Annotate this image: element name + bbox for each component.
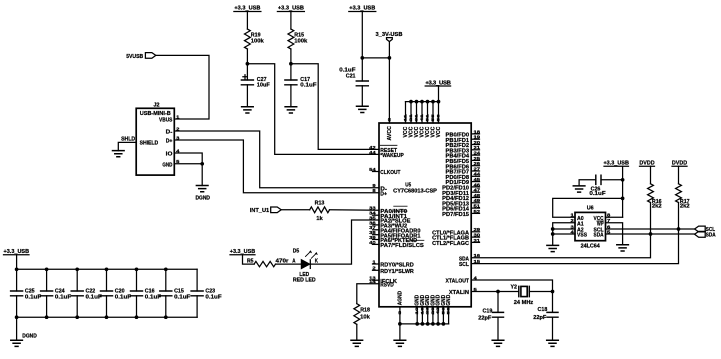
pin U6 A0 1 [571, 213, 584, 222]
node junction XTALOUT/C18 [551, 290, 555, 294]
LED D5 RED LED [292, 248, 318, 283]
pin U6 VSS 4 [571, 229, 588, 238]
power flag +3.3_USB (AVCC) [349, 6, 376, 12]
svg-text:SHIELD: SHIELD [140, 140, 159, 146]
pin PD1/FD9 45 [446, 177, 481, 186]
svg-text:D+: D+ [166, 139, 173, 145]
node bypass bus junctions [15, 267, 168, 319]
resistor R17 2k2 [676, 184, 690, 210]
node junction SCL [677, 227, 681, 231]
svg-text:21: 21 [409, 114, 413, 121]
svg-text:0.1uF: 0.1uF [25, 294, 42, 300]
svg-text:10k: 10k [360, 315, 371, 321]
svg-text:30: 30 [474, 233, 481, 238]
svg-text:10uF: 10uF [257, 82, 271, 88]
capacitor C18 22pF [533, 307, 558, 340]
pin U6 SDA 5 [594, 229, 611, 238]
node junction C26/+3.3 [621, 178, 625, 182]
svg-text:USB-MINI-B: USB-MINI-B [140, 111, 171, 117]
wire [290, 12, 292, 30]
svg-text:18: 18 [474, 129, 481, 134]
wire to PA0 [330, 209, 380, 212]
svg-text:C19: C19 [483, 308, 493, 314]
wire [650, 166, 652, 184]
wire SCL bus [606, 228, 695, 230]
svg-text:0.1uF: 0.1uF [115, 294, 132, 300]
net flag SDA [695, 231, 716, 238]
svg-text:0.1uF: 0.1uF [300, 82, 317, 88]
svg-text:47: 47 [474, 188, 481, 193]
svg-text:51: 51 [426, 114, 430, 121]
wire [276, 263, 302, 265]
capacitor C19 22pF [478, 292, 503, 341]
pin PA5/FIFOADR1 38 [369, 230, 420, 239]
svg-text:CTL2/*FLAGC: CTL2/*FLAGC [432, 241, 469, 247]
svg-text:R13: R13 [315, 201, 325, 207]
wire [246, 12, 248, 30]
wire GND [174, 163, 202, 165]
power flag DVDD (R17) [672, 161, 687, 167]
svg-text:20: 20 [474, 140, 481, 145]
wire VCC bus [406, 86, 439, 123]
pin XTALIN 5 [449, 287, 478, 296]
svg-text:56: 56 [437, 114, 441, 121]
pin AGND 3 [397, 291, 403, 324]
wire [622, 166, 624, 180]
resistor R15 100k [288, 29, 308, 49]
svg-text:RDY0/*SLRD: RDY0/*SLRD [380, 263, 414, 269]
pin PD0/FD8 44 [446, 172, 481, 181]
svg-text:100k: 100k [251, 39, 265, 45]
node junction +3.3/3_3V-USB [360, 56, 391, 60]
svg-text:29: 29 [474, 227, 481, 232]
pin PB5/FD5 25 [446, 156, 481, 165]
pin PD4/FD12 48 [442, 193, 481, 202]
wire [16, 255, 18, 270]
pin CTL1/*FLAGB 30 [432, 233, 481, 242]
wire AVCC feed [388, 58, 390, 123]
svg-text:25: 25 [474, 156, 481, 161]
pin SHIELD / SHLD net [118, 137, 136, 151]
svg-text:2: 2 [387, 118, 391, 122]
svg-text:100k: 100k [294, 39, 308, 45]
pin PA2/*SLOE 35 [369, 215, 411, 224]
wire A1/A2/VSS to ground [551, 223, 575, 246]
pin PA3/*WU2 36 [369, 220, 407, 229]
svg-text:19: 19 [474, 135, 481, 140]
ground U6 WP [617, 245, 629, 251]
pin PD2/FD10 46 [442, 182, 481, 191]
svg-text:54: 54 [369, 167, 376, 172]
wire R17/SCL to U5 [471, 203, 678, 264]
wire RSVD [357, 284, 379, 304]
svg-text:PA7/*FLD/SLCS: PA7/*FLD/SLCS [380, 243, 424, 249]
svg-text:+3.3_USB: +3.3_USB [234, 6, 260, 12]
capacitor C20 0.1uF [101, 269, 132, 317]
pin CTL2/*FLAGC 31 [432, 238, 481, 247]
wire to *WAKEUP [247, 64, 379, 155]
svg-text:SDA: SDA [594, 233, 604, 239]
ground DGND (J2) [195, 186, 210, 202]
power flag +3.3_USB (R15 pull-up) [277, 6, 304, 12]
svg-text:XTALOUT: XTALOUT [446, 279, 470, 285]
svg-text:45: 45 [474, 177, 481, 182]
svg-text:U6: U6 [587, 206, 594, 212]
pin PD3/FD11 47 [442, 188, 481, 197]
wire LED cathode to PA2 [310, 220, 379, 264]
ground [242, 107, 254, 113]
net flag SCL [695, 226, 716, 233]
svg-text:AGND: AGND [397, 291, 403, 306]
svg-text:DGND: DGND [22, 334, 37, 340]
svg-text:5VUSB: 5VUSB [126, 54, 143, 60]
svg-text:24 MHz: 24 MHz [514, 300, 534, 306]
svg-text:U5: U5 [405, 182, 411, 188]
svg-text:+3.3_USB: +3.3_USB [349, 6, 375, 12]
wire A0 tie-high [553, 198, 623, 217]
pin PA1/INT1 34 [369, 211, 407, 220]
power flag DVDD (R16) [639, 161, 654, 167]
capacitor C16 0.1uF [131, 269, 162, 317]
wire U6 WP to ground [606, 223, 623, 245]
svg-text:VBUS: VBUS [159, 118, 173, 124]
node junction SDA [649, 232, 653, 236]
svg-text:1k: 1k [316, 216, 323, 222]
pin PB3/FD3 21 [446, 145, 481, 154]
svg-text:GND: GND [162, 162, 172, 168]
pin PB1/FD1 19 [446, 135, 481, 144]
svg-text:CY7C68013-CSP: CY7C68013-CSP [393, 189, 437, 195]
svg-text:31: 31 [415, 114, 419, 121]
net flag 5VUSB [126, 53, 156, 60]
svg-text:D5: D5 [293, 248, 300, 254]
capacitor C23 0.1uF [191, 269, 222, 317]
pin CLKOUT 54 [373, 171, 380, 173]
pin RDY0/*SLRD 1 [373, 263, 380, 265]
svg-text:R5: R5 [247, 258, 254, 264]
svg-text:0.1uF: 0.1uF [205, 294, 222, 300]
pin U6 VCC 8 [594, 213, 611, 222]
svg-text:11: 11 [404, 114, 408, 121]
svg-text:CLKOUT: CLKOUT [380, 170, 401, 176]
ground [357, 106, 369, 112]
svg-text:SDA: SDA [706, 233, 716, 239]
ground C18 [547, 340, 559, 346]
ground C26 [573, 186, 585, 192]
ground R18 [351, 340, 363, 346]
svg-text:0.1uF: 0.1uF [174, 294, 191, 300]
svg-text:C21: C21 [346, 74, 356, 80]
wire SDA bus [606, 233, 695, 235]
ground U6 VSS [547, 245, 559, 251]
wire bypass bottom bus [17, 316, 198, 318]
svg-text:40: 40 [369, 240, 376, 245]
pin PD5/FD13 49 [442, 198, 481, 207]
capacitor C27 10uF [241, 64, 270, 107]
wire VCC vertical [622, 180, 624, 217]
pin PB0/FD0 18 [446, 129, 481, 138]
pin PB6/FD6 26 [446, 161, 481, 170]
wire VBUS [156, 55, 209, 119]
node IO/GND junction [200, 162, 204, 166]
svg-text:AVCC: AVCC [387, 126, 393, 141]
svg-text:46: 46 [474, 182, 481, 187]
pin PA6/*PKTEND 39 [369, 235, 417, 244]
wire [529, 291, 552, 293]
capacitor C24 0.1uF [41, 269, 72, 317]
pin PA4/FIFOADR0 37 [369, 225, 420, 234]
resistor R5 470r [247, 258, 289, 267]
node junction A0 branch [621, 197, 625, 201]
svg-text:44: 44 [474, 172, 481, 177]
svg-text:A1: A1 [577, 221, 584, 227]
pin GND bus [400, 295, 452, 324]
svg-text:21: 21 [474, 145, 481, 150]
wire [16, 317, 18, 340]
ground DGND (bypass) [11, 334, 37, 347]
wire [290, 49, 292, 64]
wire [281, 209, 310, 211]
wire [201, 164, 203, 186]
svg-text:VSS: VSS [577, 233, 587, 239]
resistor R16 2k2 [648, 184, 662, 210]
svg-text:R18: R18 [360, 308, 370, 314]
svg-text:A: A [292, 258, 295, 264]
node GND bus junctions [398, 322, 445, 326]
ground C19 [492, 340, 504, 346]
svg-text:24LC64: 24LC64 [581, 244, 600, 250]
svg-text:31: 31 [474, 238, 481, 243]
power flag +3.3_USB (R19 pull-up) [234, 6, 261, 12]
crystal Y2 24 MHz [510, 284, 533, 306]
node VCC bus junctions [409, 100, 440, 104]
wire XTALIN [471, 291, 519, 293]
net flag 3_3V-USB [376, 32, 403, 42]
capacitor C22 0.1uF [71, 269, 102, 317]
svg-text:2k2: 2k2 [652, 204, 662, 210]
svg-text:DGND: DGND [195, 195, 210, 201]
svg-text:SCL: SCL [459, 262, 470, 268]
svg-text:27: 27 [474, 166, 481, 171]
power flag +3.3_USB (VCC bus) [425, 80, 450, 86]
svg-text:470r: 470r [276, 258, 290, 264]
power flag +3.3_USB (bypass bank) [4, 249, 30, 255]
pin PD7/FD15 52 [442, 209, 481, 218]
svg-text:22pF: 22pF [533, 315, 547, 321]
svg-text:RSVD: RSVD [380, 282, 393, 288]
svg-text:J2: J2 [154, 103, 160, 109]
connector J2 USB-MINI-B [136, 103, 180, 176]
ground [285, 107, 297, 113]
wire IO [174, 153, 202, 164]
wire [388, 42, 390, 58]
svg-text:49: 49 [474, 198, 481, 203]
pin U6 A1 2 [571, 218, 584, 227]
svg-text:41: 41 [420, 114, 424, 121]
svg-text:C18: C18 [538, 307, 548, 313]
svg-text:0.1uF: 0.1uF [589, 191, 606, 197]
power flag +3.3_USB (LED) [230, 249, 256, 255]
resistor R13 1k [310, 201, 330, 222]
pin RDY1/*SLWR 2 [373, 269, 380, 271]
pin PA0/INT0 33 [369, 206, 407, 215]
wire D+ [174, 140, 379, 193]
svg-text:*WAKEUP: *WAKEUP [380, 153, 404, 159]
ground AGND [394, 340, 406, 346]
svg-text:GND: GND [446, 295, 452, 306]
svg-text:K: K [315, 258, 318, 264]
pin PA7/*FLD/SLCS 40 [369, 240, 424, 249]
wire R16/SDA to U5 [471, 203, 650, 258]
resistor R18 10k [354, 304, 371, 325]
wire [246, 49, 248, 64]
capacitor C25 0.1uF [11, 269, 42, 317]
capacitor C17 0.1uF [285, 64, 317, 107]
pin CTL0/*FLAGA 29 [432, 227, 481, 236]
capacitor C26 0.1uF [579, 175, 623, 197]
ground SHLD [113, 151, 125, 157]
node junction R15/C17 [289, 62, 293, 66]
svg-text:PD7/FD15: PD7/FD15 [442, 212, 469, 218]
op-amp U6 24LC64 body [575, 206, 606, 250]
pin XTALOUT 4 [446, 275, 478, 284]
svg-text:WP: WP [597, 221, 604, 227]
pin AVCC 2 [387, 118, 393, 141]
svg-text:D-: D- [166, 130, 173, 136]
svg-text:INT_U1: INT_U1 [250, 208, 270, 214]
svg-text:51: 51 [474, 204, 481, 209]
op-amp U5 CY7C68013-CSP body [379, 123, 471, 307]
pin PB4/FD4 24 [446, 151, 481, 160]
node junction XTALIN/C19 [496, 290, 500, 294]
svg-text:RDY1/*SLWR: RDY1/*SLWR [380, 269, 414, 275]
wire D- [174, 131, 379, 188]
pin SDA 15 [459, 253, 481, 262]
wire [399, 324, 401, 340]
resistor R19 100k [245, 29, 265, 49]
wire [361, 12, 363, 58]
svg-text:IO: IO [166, 152, 173, 158]
wire [678, 166, 680, 184]
pin U6 A2 3 [571, 224, 584, 233]
svg-text:24: 24 [474, 151, 481, 156]
wire to RESET [291, 64, 379, 150]
svg-text:44: 44 [369, 150, 376, 155]
pin PB7/FD7 27 [446, 166, 481, 175]
svg-text:Y2: Y2 [510, 284, 517, 290]
power flag +3.3_USB (EEPROM) [603, 161, 629, 167]
svg-text:2k2: 2k2 [680, 204, 690, 210]
capacitor C15 0.1uF [160, 269, 191, 317]
svg-text:52: 52 [474, 209, 481, 214]
svg-text:55: 55 [431, 114, 435, 121]
wire [356, 324, 358, 340]
pin U6 WP 7 [597, 218, 611, 227]
svg-text:D+: D+ [380, 191, 387, 197]
pin U6 SCL 6 [594, 224, 611, 233]
svg-text:RED LED: RED LED [293, 278, 316, 284]
svg-text:+3.3_USB: +3.3_USB [278, 6, 304, 12]
wire [243, 255, 255, 264]
wire bypass top bus [17, 268, 198, 270]
svg-text:0.1uF: 0.1uF [55, 294, 72, 300]
pin IFCLK 13 [373, 279, 380, 281]
wire U6 VCC [606, 216, 623, 218]
pin PB2/FD2 20 [446, 140, 481, 149]
net flag INT_U1 [250, 207, 282, 214]
pin PD6/FD14 51 [442, 204, 481, 213]
pin SCL 16 [459, 259, 481, 268]
svg-text:VCC: VCC [436, 126, 442, 137]
node junction R19/C27 [246, 62, 250, 66]
capacitor C21 0.1uF [339, 58, 368, 106]
pin VCC labels [403, 114, 442, 137]
svg-text:26: 26 [474, 161, 481, 166]
svg-text:22pF: 22pF [478, 316, 492, 322]
wire XTALOUT [471, 280, 552, 312]
svg-text:48: 48 [474, 193, 481, 198]
